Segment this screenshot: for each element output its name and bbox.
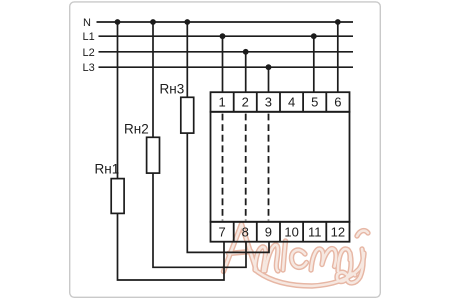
wire Rн2 to terminal 8 — [153, 173, 246, 267]
svg-text:N: N — [83, 17, 91, 29]
svg-text:9: 9 — [265, 224, 272, 239]
svg-text:3: 3 — [265, 95, 272, 110]
svg-text:L3: L3 — [83, 62, 95, 74]
junction L1 / terminal 5 — [311, 33, 317, 39]
svg-text:8: 8 — [242, 224, 249, 239]
wire Rн3 to terminal 9 — [187, 133, 269, 252]
junction N / Rн2 — [150, 19, 156, 25]
internal contact 1-7 (dashed) — [222, 114, 224, 221]
resistor Rн3 — [181, 97, 194, 133]
junction N / Rн3 — [184, 19, 190, 25]
svg-text:1: 1 — [218, 95, 225, 110]
svg-text:12: 12 — [331, 224, 345, 239]
resistor Rн2 — [147, 137, 160, 173]
internal contact 3-9 (dashed) — [268, 114, 270, 221]
wire N bus — [97, 21, 354, 23]
relay module body — [211, 112, 350, 222]
svg-text:L2: L2 — [83, 47, 95, 59]
terminal strip top (1-6) — [211, 92, 350, 112]
wire N to Rн2 — [152, 22, 154, 137]
junction N / terminal 6 — [335, 19, 341, 25]
wire L3 bus — [99, 66, 354, 68]
junction L1 / terminal 1 — [220, 33, 226, 39]
svg-text:10: 10 — [284, 224, 298, 239]
svg-text:6: 6 — [334, 95, 341, 110]
svg-text:11: 11 — [308, 224, 322, 239]
junction L2 / terminal 2 — [243, 49, 249, 55]
wire L2 to terminal 2 — [245, 52, 247, 92]
svg-text:2: 2 — [242, 95, 249, 110]
internal contact 2-8 (dashed) — [245, 114, 247, 221]
wire N to Rн3 — [186, 22, 188, 99]
svg-text:5: 5 — [311, 95, 318, 110]
svg-text:4: 4 — [288, 95, 295, 110]
junction N / Rн1 — [115, 19, 121, 25]
svg-text:7: 7 — [218, 224, 225, 239]
terminal strip bottom (7-12) — [211, 222, 350, 242]
svg-text:Rн1: Rн1 — [95, 162, 120, 177]
wire L2 bus — [99, 51, 354, 53]
wire L1 bus — [99, 35, 354, 37]
wire Rн1 to terminal 7 — [118, 214, 225, 280]
resistor Rн1 — [111, 179, 124, 214]
wire N to terminal 6 — [337, 22, 339, 92]
svg-text:L1: L1 — [83, 31, 95, 43]
wire N to Rн1 — [117, 22, 119, 178]
svg-text:Rн3: Rн3 — [160, 82, 185, 97]
wire L1 to terminal 5 — [313, 36, 315, 92]
wire L3 to terminal 3 — [268, 67, 270, 92]
junction L3 / terminal 3 — [266, 64, 272, 70]
wire L1 to terminal 1 — [222, 36, 224, 92]
svg-text:Rн2: Rн2 — [124, 122, 149, 137]
